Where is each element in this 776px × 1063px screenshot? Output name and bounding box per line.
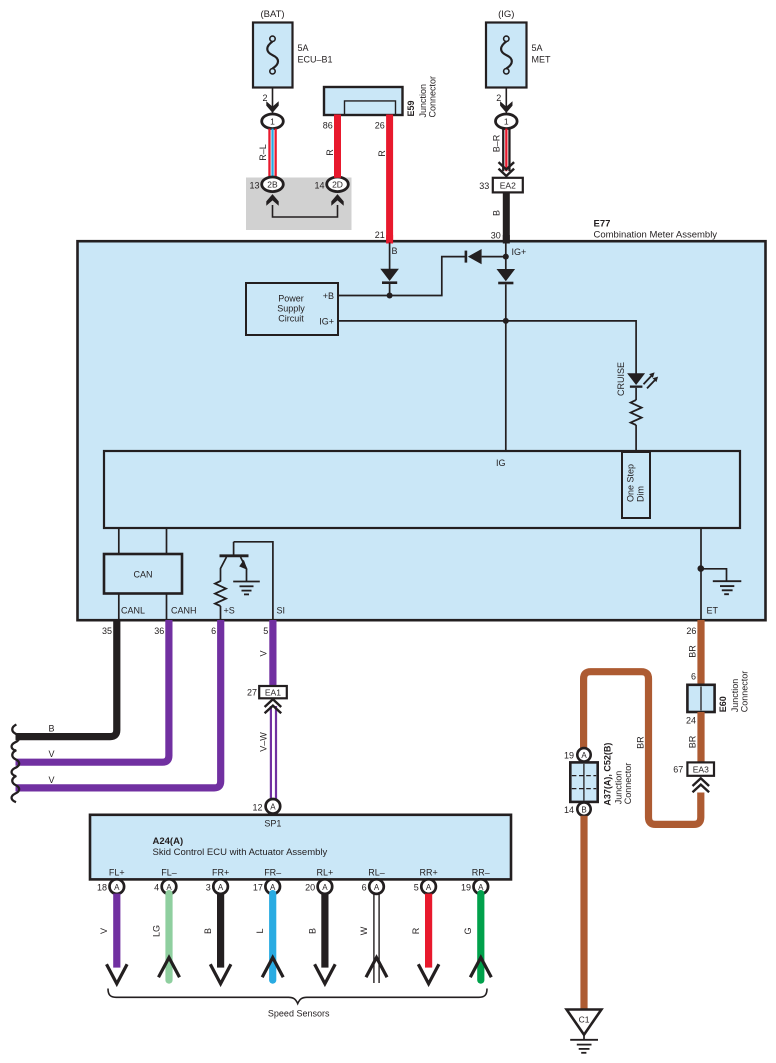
svg-text:L: L	[255, 928, 265, 933]
wire color label V-W	[259, 732, 269, 752]
svg-text:R–L: R–L	[258, 144, 268, 161]
connector A (A37)	[577, 748, 590, 761]
wire color label G	[463, 927, 473, 934]
pin label RL+	[317, 867, 334, 877]
wire BR A37 to ground C1	[580, 816, 587, 1010]
connector A (FL-)	[162, 879, 177, 894]
svg-text:2: 2	[262, 93, 267, 103]
svg-text:A: A	[218, 883, 224, 892]
wire color label BR (24)	[688, 735, 698, 748]
pin 30 label	[491, 230, 501, 240]
svg-text:Junction: Junction	[730, 679, 740, 713]
svg-text:4: 4	[154, 883, 159, 893]
svg-text:3: 3	[206, 883, 211, 893]
connector 2B	[262, 177, 284, 192]
svg-text:33: 33	[479, 181, 489, 191]
svg-text:Power: Power	[278, 294, 304, 304]
wire V +S (pin 6)	[16, 620, 221, 788]
svg-text:EA3: EA3	[693, 765, 709, 775]
svg-text:SI: SI	[277, 605, 286, 615]
wire fuse to connector 1	[272, 88, 274, 113]
svg-text:EA1: EA1	[265, 687, 281, 697]
connector A (RL-)	[369, 879, 384, 894]
svg-text:IG+: IG+	[319, 317, 334, 327]
label E59	[406, 100, 416, 116]
svg-text:CAN: CAN	[133, 570, 152, 580]
wire color label LG	[151, 925, 161, 937]
wire BR ET pin 26 to E60	[697, 620, 704, 686]
svg-text:Dim: Dim	[636, 486, 646, 502]
svg-text:FR+: FR+	[212, 867, 229, 877]
junction connector E59	[324, 87, 403, 115]
svg-text:5: 5	[414, 883, 419, 893]
svg-text:Junction: Junction	[418, 84, 428, 118]
svg-text:IG+: IG+	[512, 247, 527, 257]
svg-text:1: 1	[504, 117, 509, 127]
ground G1 (transistor emitter)	[233, 582, 260, 595]
wire resistor to IG bus	[635, 425, 637, 452]
svg-text:CANL: CANL	[121, 605, 145, 615]
svg-text:B–R: B–R	[492, 134, 502, 152]
wire V CANH (pin 36)	[16, 620, 169, 762]
pin 6 label (RL-)	[362, 883, 367, 893]
wire IG node to bus box	[505, 321, 507, 452]
svg-text:26: 26	[375, 120, 385, 130]
wire color label V (SI)	[259, 650, 269, 656]
svg-text:5: 5	[263, 626, 268, 636]
junction connector A37/C52	[570, 762, 597, 802]
wire B CANL (pin 35)	[16, 620, 117, 737]
wire LG FL- with chevron up	[159, 894, 180, 981]
pin 19 label (RR-)	[461, 883, 471, 893]
net label B (pin 21)	[392, 246, 398, 256]
svg-text:Connector: Connector	[428, 76, 438, 118]
svg-text:21: 21	[375, 230, 385, 240]
pin label FR-	[264, 867, 281, 877]
svg-text:18: 18	[97, 883, 107, 893]
link wire between 2B and 2D	[273, 205, 338, 217]
svg-text:24: 24	[686, 716, 696, 726]
chevron arrow into EA1	[265, 699, 282, 713]
svg-text:B: B	[49, 724, 55, 734]
wire G RR- with chevron up	[470, 894, 491, 981]
svg-text:12: 12	[252, 803, 262, 813]
svg-text:RR+: RR+	[419, 867, 437, 877]
svg-text:20: 20	[305, 883, 315, 893]
pin 24 label	[686, 716, 696, 726]
diode D1	[380, 269, 399, 284]
wire color label B (FR+)	[203, 928, 213, 934]
pin 12 label	[252, 803, 262, 813]
svg-text:35: 35	[102, 626, 112, 636]
wire BR EA3 to A37 connector A	[584, 672, 701, 825]
pin 2 label (IG)	[496, 93, 501, 103]
wire color label V (CANH)	[49, 749, 55, 759]
connector A (RR-)	[474, 879, 489, 894]
svg-text:G: G	[463, 927, 473, 934]
pin label CANL	[121, 605, 145, 615]
svg-text:30: 30	[491, 230, 501, 240]
junction dot IG line	[503, 318, 509, 324]
wire color label W	[359, 926, 369, 935]
ground G2 (ET)	[713, 581, 742, 594]
pin label FR+	[212, 867, 229, 877]
svg-text:(IG): (IG)	[498, 9, 514, 20]
connector 1 (BAT side)	[262, 114, 284, 129]
label Junction Connector (E59)	[418, 76, 438, 118]
svg-text:RL–: RL–	[368, 867, 385, 877]
pin 36 label	[154, 626, 164, 636]
svg-text:E59: E59	[406, 100, 416, 116]
svg-text:2: 2	[496, 93, 501, 103]
wire color label B (CANL)	[49, 724, 55, 734]
junction dot IG+	[503, 254, 509, 260]
pin 67 label	[673, 765, 683, 775]
svg-text:A: A	[374, 883, 380, 892]
combination meter assembly E77 box	[78, 241, 766, 620]
svg-text:67: 67	[673, 765, 683, 775]
wire B stub over border (pin 30)	[503, 235, 510, 244]
svg-text:6: 6	[362, 883, 367, 893]
wire color label R-L	[258, 144, 268, 161]
wire B FR+ with arrow down	[210, 894, 231, 984]
svg-text:5A: 5A	[532, 43, 543, 53]
wire L FR- with chevron up	[262, 894, 283, 981]
svg-text:86: 86	[323, 120, 333, 130]
speed sensors brace	[108, 989, 487, 1004]
male connector arrow (IG)	[500, 101, 512, 113]
svg-text:BR: BR	[688, 735, 698, 748]
male connector arrow	[266, 101, 278, 113]
svg-text:B: B	[492, 210, 502, 216]
resistor R1	[631, 400, 642, 425]
svg-text:14: 14	[564, 805, 574, 815]
power supply circuit U1	[246, 283, 338, 335]
wire D2 to IG+ node	[482, 256, 506, 258]
net label IG+	[512, 247, 527, 257]
svg-text:13: 13	[249, 180, 259, 190]
svg-text:R: R	[325, 149, 335, 156]
connector 2D	[327, 177, 349, 192]
wire break squiggle (B)	[12, 725, 20, 751]
svg-text:CANH: CANH	[171, 605, 197, 615]
label Speed Sensors	[268, 1008, 330, 1018]
connector A (RL+)	[318, 879, 333, 894]
pin 14 label	[314, 180, 324, 190]
wire break squiggle (V +S)	[12, 776, 20, 802]
pin label ET	[707, 605, 719, 615]
pin 26 label	[686, 626, 696, 636]
pin 5 label (RR+)	[414, 883, 419, 893]
pin 2 label	[262, 93, 267, 103]
svg-text:E60: E60	[718, 696, 728, 712]
svg-text:B: B	[307, 928, 317, 934]
wire B (EA2 to pin 30)	[503, 192, 510, 242]
pin label SI	[277, 605, 286, 615]
svg-text:Connector: Connector	[739, 671, 749, 713]
pin 26 label (E59)	[375, 120, 385, 130]
pin 86 label	[323, 120, 333, 130]
svg-text:2D: 2D	[332, 180, 343, 190]
pin 13 label	[249, 180, 259, 190]
svg-text:R: R	[411, 927, 421, 934]
svg-text:CRUISE: CRUISE	[616, 362, 626, 396]
svg-text:17: 17	[253, 883, 263, 893]
svg-text:BR: BR	[688, 645, 698, 658]
wire color label R (26)	[377, 150, 387, 157]
pin 18 label	[97, 883, 107, 893]
pin label RR-	[472, 867, 490, 877]
label Junction Connector (A37)	[614, 763, 634, 805]
pin 19 label	[564, 751, 574, 761]
svg-text:A: A	[114, 883, 120, 892]
pin label RR+	[419, 867, 437, 877]
pin 35 label	[102, 626, 112, 636]
wire V-W (EA1 to SP1)	[270, 706, 277, 800]
ground C1	[567, 1010, 602, 1053]
wire color label V (FL+)	[99, 928, 109, 934]
connector A (FR+)	[213, 879, 228, 894]
connector B (A37)	[577, 802, 590, 815]
wire color label BR (pin 26)	[688, 645, 698, 658]
pin 5 label	[263, 626, 268, 636]
wire color label B	[492, 210, 502, 216]
node (BAT)	[260, 9, 284, 20]
svg-text:A: A	[581, 751, 587, 760]
wire LED to resistor	[635, 388, 637, 400]
svg-text:36: 36	[154, 626, 164, 636]
wire V FL+ with arrow down	[107, 894, 128, 984]
svg-text:ECU–B1: ECU–B1	[298, 55, 333, 65]
svg-text:R: R	[377, 150, 387, 157]
svg-text:RR–: RR–	[472, 867, 490, 877]
connector 1 (IG side)	[496, 114, 518, 129]
svg-text:V: V	[99, 928, 109, 934]
svg-text:A: A	[426, 883, 432, 892]
skid control ECU A24 box	[90, 815, 511, 880]
wire CAN to pin 35	[118, 594, 120, 621]
svg-text:Junction: Junction	[614, 771, 624, 805]
svg-text:V–W: V–W	[259, 732, 269, 752]
pin label +B	[323, 291, 334, 301]
wire color label B-R	[492, 134, 502, 152]
svg-text:V: V	[49, 749, 55, 759]
transistor Q1	[220, 542, 249, 582]
connector A (RR+)	[421, 879, 436, 894]
wire ET to ground G2	[701, 569, 727, 581]
wire bus to CANL	[118, 528, 120, 555]
pin 21 label	[375, 230, 385, 240]
wire bus to CANH	[166, 528, 168, 555]
label E60	[718, 696, 728, 712]
svg-text:BR: BR	[636, 736, 646, 749]
wire fuse to connector 1 (IG)	[505, 88, 507, 113]
connector EA3	[687, 762, 714, 775]
svg-text:MET: MET	[532, 55, 552, 65]
male arrow up into 2B	[266, 194, 278, 206]
svg-text:14: 14	[314, 180, 324, 190]
svg-text:FL+: FL+	[109, 867, 125, 877]
connector EA1	[259, 686, 287, 698]
svg-text:A24(A): A24(A)	[153, 836, 184, 847]
svg-text:FR–: FR–	[264, 867, 281, 877]
pin 20 label	[305, 883, 315, 893]
svg-text:Connector: Connector	[623, 763, 633, 805]
CAN block	[104, 554, 182, 594]
svg-text:19: 19	[461, 883, 471, 893]
pin 4 label	[154, 883, 159, 893]
fuse F2 5A MET	[486, 23, 527, 88]
connector EA2	[493, 178, 523, 193]
wire R from E59 pin 26 to E77 pin 21	[386, 115, 393, 243]
wire color label B (RL+)	[307, 928, 317, 934]
internal circuit bus box	[104, 451, 740, 528]
svg-text:27: 27	[247, 687, 257, 697]
wire color label L	[255, 928, 265, 933]
pin label RL-	[368, 867, 385, 877]
pin label CANH	[171, 605, 197, 615]
svg-text:2B: 2B	[267, 180, 278, 190]
value label 5A ECU-B1	[298, 43, 333, 65]
svg-text:B: B	[581, 805, 586, 814]
wire D1 to +B node	[389, 284, 391, 296]
wire B-R	[502, 129, 510, 172]
net label SP1	[264, 818, 281, 828]
svg-text:EA2: EA2	[500, 181, 516, 191]
connector A (FR-)	[265, 879, 280, 894]
wire color label BR (link)	[636, 736, 646, 749]
svg-text:Skid Control ECU with Actuator: Skid Control ECU with Actuator Assembly	[153, 847, 328, 858]
svg-text:Combination Meter Assembly: Combination Meter Assembly	[594, 229, 718, 240]
net label IG	[496, 458, 506, 468]
svg-text:FL–: FL–	[161, 867, 177, 877]
LED CRUISE	[627, 372, 658, 388]
svg-text:IG: IG	[496, 458, 506, 468]
pin 27 label	[247, 687, 257, 697]
svg-text:C1: C1	[579, 1014, 590, 1024]
wire Q1 collector to SI	[234, 542, 273, 620]
svg-text:A: A	[270, 803, 276, 812]
label E77	[594, 218, 611, 229]
wire R stub over border (pin 21)	[386, 235, 393, 244]
wire +B to diode D2	[338, 257, 465, 296]
value label 5A MET	[532, 43, 552, 65]
svg-text:+B: +B	[323, 291, 334, 301]
label Combination Meter Assembly	[594, 229, 718, 240]
svg-text:19: 19	[564, 751, 574, 761]
wire B RL+ with arrow down	[315, 894, 336, 984]
wire R RR+ with arrow down	[418, 894, 439, 984]
svg-text:W: W	[359, 926, 369, 935]
wire V SI (pin 5)	[269, 620, 276, 686]
wire BR E60 to EA3	[697, 712, 704, 763]
svg-text:6: 6	[691, 672, 696, 682]
svg-text:Circuit: Circuit	[278, 314, 304, 324]
pin 17 label	[253, 883, 263, 893]
wire color label V (+S)	[49, 775, 55, 785]
svg-text:A37(A), C52(B): A37(A), C52(B)	[603, 743, 613, 806]
svg-text:B: B	[203, 928, 213, 934]
male arrow up into 2D	[331, 194, 343, 206]
pin label FL+	[109, 867, 125, 877]
svg-text:B: B	[392, 246, 398, 256]
chevron arrow into EA2	[499, 162, 515, 176]
label A24(A)	[153, 836, 184, 847]
wire W RL- with chevron up	[366, 894, 387, 983]
svg-text:Supply: Supply	[277, 304, 305, 314]
svg-text:26: 26	[686, 626, 696, 636]
pin label +S	[224, 605, 235, 615]
pin 14 label (A37 B)	[564, 805, 574, 815]
wire R2 to pin 6	[220, 606, 222, 620]
shield gray box	[246, 178, 352, 231]
chevron arrow into EA3	[693, 778, 710, 792]
pin label FL-	[161, 867, 177, 877]
one step dim block	[622, 452, 650, 518]
label A37(A), C52(B)	[603, 743, 613, 806]
wire break squiggle (V CANH)	[12, 750, 20, 776]
pin label IG+ (U1)	[319, 317, 334, 327]
svg-text:Speed Sensors: Speed Sensors	[268, 1008, 330, 1018]
svg-text:6: 6	[211, 626, 216, 636]
svg-text:ET: ET	[707, 605, 719, 615]
junction connector E60	[687, 685, 714, 712]
label Skid Control ECU with Actuator Assembly	[153, 847, 328, 858]
junction dot +B node	[387, 293, 393, 299]
svg-text:V: V	[259, 650, 269, 656]
svg-text:(BAT): (BAT)	[260, 9, 284, 20]
wire B from pin 21 to diode D1	[389, 243, 391, 270]
connector A (SP1)	[266, 799, 281, 814]
wire D3 to IG node	[505, 284, 507, 321]
fuse F1 5A ECU-B1	[253, 23, 293, 88]
svg-text:+S: +S	[224, 605, 235, 615]
diode D3	[497, 269, 516, 284]
wire bus to ET	[700, 528, 702, 620]
svg-text:LG: LG	[151, 925, 161, 937]
pin 6 label (E60)	[691, 672, 696, 682]
svg-text:1: 1	[270, 117, 275, 127]
wire IG+ line to LED branch	[338, 321, 636, 374]
wire R from E59 pin 86 to 2D	[334, 115, 341, 178]
wire color label R (RR+)	[411, 927, 421, 934]
svg-text:A: A	[322, 883, 328, 892]
wire color label R (86)	[325, 149, 335, 156]
svg-text:RL+: RL+	[317, 867, 334, 877]
junction dot ET	[698, 565, 705, 572]
connector A (FL+)	[110, 879, 125, 894]
svg-text:One Step: One Step	[626, 464, 636, 502]
pin 33 label	[479, 181, 489, 191]
wire pin 30 to IG+ node	[505, 242, 507, 269]
svg-text:V: V	[49, 775, 55, 785]
svg-text:SP1: SP1	[264, 818, 281, 828]
svg-text:5A: 5A	[298, 43, 309, 53]
wire CAN to pin 36	[166, 594, 168, 621]
resistor R2 (+S)	[215, 581, 226, 606]
wire R-L	[268, 129, 277, 178]
svg-text:E77: E77	[594, 218, 611, 229]
label Junction Connector (E60)	[730, 671, 750, 713]
pin 6 label	[211, 626, 216, 636]
pin 3 label	[206, 883, 211, 893]
LED label CRUISE	[616, 362, 626, 396]
node (IG)	[498, 9, 514, 20]
diode D2	[465, 249, 482, 264]
